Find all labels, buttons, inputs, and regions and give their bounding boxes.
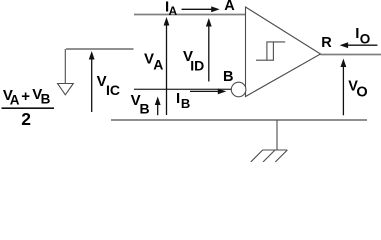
svg-text:A: A — [224, 0, 235, 14]
svg-text:2: 2 — [21, 109, 31, 129]
svg-text:I: I — [176, 90, 180, 107]
svg-text:A: A — [169, 4, 178, 18]
svg-text:ID: ID — [190, 58, 204, 74]
svg-text:B: B — [181, 96, 190, 111]
svg-text:B: B — [41, 92, 51, 107]
svg-text:A: A — [10, 92, 20, 107]
svg-text:+: + — [21, 88, 30, 105]
svg-text:B: B — [223, 69, 233, 85]
svg-text:B: B — [140, 101, 150, 117]
svg-text:O: O — [360, 31, 371, 46]
svg-text:IC: IC — [106, 82, 120, 98]
svg-text:O: O — [356, 85, 367, 101]
svg-text:R: R — [321, 35, 332, 51]
svg-text:A: A — [153, 57, 163, 73]
